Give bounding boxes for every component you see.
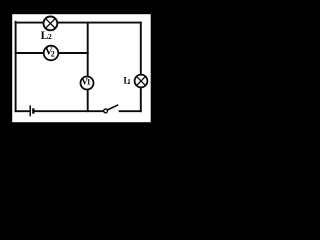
svg-text:2: 2 bbox=[48, 32, 52, 41]
svg-text:1: 1 bbox=[127, 78, 131, 86]
wire middle vertical bbox=[87, 23, 89, 112]
battery cell bbox=[30, 105, 33, 116]
wire bottom battery to switch bbox=[34, 110, 103, 112]
voltmeter V2 bbox=[44, 46, 59, 61]
lamp L1 bbox=[135, 75, 148, 88]
wire top left segment bbox=[16, 22, 44, 24]
wire V2 branch horizontal bbox=[16, 52, 88, 54]
white panel bbox=[12, 14, 151, 122]
lamp L2 bbox=[44, 17, 58, 31]
svg-text:2: 2 bbox=[51, 49, 55, 58]
wire bottom right of switch bbox=[120, 110, 141, 112]
wire right vertical bbox=[140, 23, 142, 112]
switch S bbox=[104, 105, 119, 113]
wire left vertical bbox=[15, 22, 17, 111]
voltmeter V1 bbox=[81, 76, 94, 89]
wire top middle segment bbox=[57, 22, 141, 24]
svg-text:1: 1 bbox=[87, 78, 91, 87]
wire bottom left of battery bbox=[16, 110, 30, 112]
